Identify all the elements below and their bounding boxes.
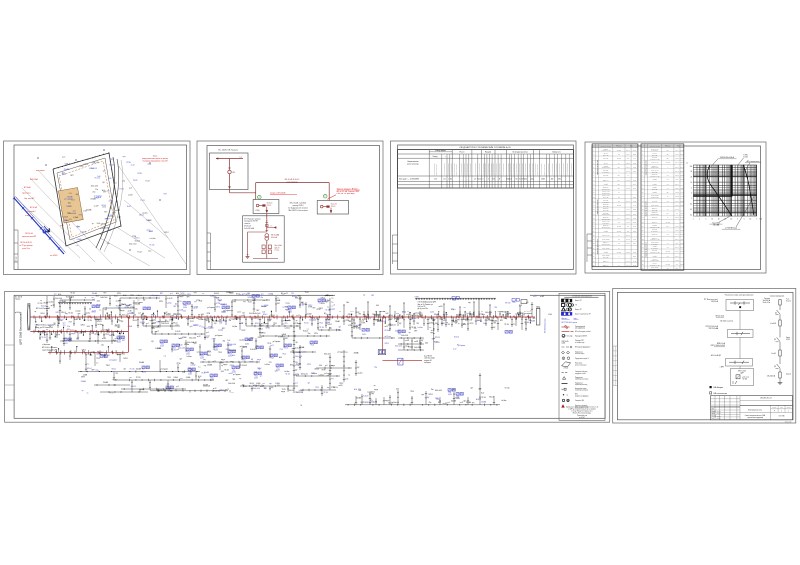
svg-text:0,45: 0,45 [524, 179, 527, 181]
svg-text:62.82: 62.82 [680, 222, 683, 224]
svg-text:33.78: 33.78 [680, 158, 683, 160]
svg-text:ЩУ: ЩУ [155, 331, 157, 333]
svg-text:ВЛ-0,4: ВЛ-0,4 [255, 323, 259, 325]
svg-text:ВРУ: ВРУ [414, 331, 417, 333]
svg-text:уч.5: уч.5 [138, 313, 141, 315]
svg-text:3х50+1х54: 3х50+1х54 [295, 298, 302, 300]
svg-text:ЦРП 10кВ Бессоновский: ЦРП 10кВ Бессоновский [19, 312, 23, 345]
svg-text:на шинах 0,4 кВ: на шинах 0,4 кВ [650, 176, 659, 178]
svg-text:ул.Садовая: ул.Садовая [160, 369, 168, 371]
svg-text:уч-ка 10 м: уч-ка 10 м [22, 248, 30, 250]
svg-text:20.09: 20.09 [680, 217, 683, 219]
svg-text:ПС 110: ПС 110 [130, 369, 135, 371]
svg-text:ПУЭ: ПУЭ [280, 349, 283, 351]
svg-text:расчетная мощность: расчетная мощность [448, 163, 450, 175]
svg-text:расчетная мощность: расчетная мощность [563, 163, 565, 175]
svg-text:ВЛ 10 кВ Ф-13: ВЛ 10 кВ Ф-13 [20, 241, 31, 244]
svg-text:2х250: 2х250 [245, 343, 249, 345]
svg-text:ЩУ: ЩУ [242, 313, 244, 315]
svg-text:КТПН: КТПН [95, 334, 99, 336]
svg-text:Предельная: Предельная [575, 351, 583, 353]
svg-text:По методике расчетных: По методике расчетных [512, 151, 528, 153]
svg-text:5.2: 5.2 [627, 226, 629, 228]
svg-text:ПС 110: ПС 110 [270, 315, 275, 317]
svg-text:ВРУ: ВРУ [78, 313, 81, 315]
svg-text:0,38кВ: 0,38кВ [221, 311, 225, 313]
svg-text:9.4: 9.4 [627, 175, 629, 177]
svg-text:0,38кВ: 0,38кВ [182, 337, 186, 339]
svg-text:СИП-2: СИП-2 [225, 349, 229, 351]
svg-text:ТП-53: ТП-53 [452, 300, 456, 302]
svg-text:ВЛ-0,4: ВЛ-0,4 [44, 303, 48, 305]
svg-text:Длина уч.: Длина уч. [603, 179, 609, 181]
svg-text:ВЛ-0,4: ВЛ-0,4 [173, 323, 177, 325]
svg-text:0,38кВ: 0,38кВ [173, 377, 177, 379]
svg-text:ПУЭ: ПУЭ [202, 327, 205, 329]
svg-text:свардных столба: свардных столба [575, 373, 586, 375]
svg-text:Провода СИП: Провода СИП [575, 340, 584, 342]
svg-text:ТП-13: ТП-13 [116, 305, 120, 307]
svg-text:СИП-2: СИП-2 [108, 315, 112, 317]
svg-text:380: 380 [558, 179, 561, 181]
svg-text:уч.5: уч.5 [51, 305, 54, 307]
svg-text:Расчет: Расчет [460, 151, 465, 153]
svg-text:СИП-2: СИП-2 [81, 325, 85, 327]
svg-text:ТП-27: ТП-27 [276, 368, 280, 370]
svg-text:ТП-8: ТП-8 [448, 392, 451, 394]
svg-text:СИП-2: СИП-2 [91, 312, 95, 314]
svg-text:СИП-2: СИП-2 [139, 215, 144, 217]
svg-text:работ или опор: работ или опор [407, 164, 418, 166]
svg-text:Разряд: Разряд [433, 156, 438, 158]
svg-text:8 Iн: 8 Iн [667, 175, 669, 177]
svg-text:Rл, Ом: Rл, Ом [617, 150, 621, 152]
svg-text:ул.Садовая: ул.Садовая [261, 323, 269, 325]
svg-text:СИП-3: СИП-3 [385, 343, 389, 345]
svg-text:271.5: 271.5 [626, 213, 629, 215]
svg-text:689.9: 689.9 [675, 255, 678, 257]
svg-text:ЩУ: ЩУ [157, 389, 159, 391]
svg-text:Утв: Утв [712, 418, 714, 420]
svg-text:инв.подл: инв.подл [16, 256, 18, 262]
svg-text:2х250: 2х250 [183, 307, 187, 309]
svg-text:оп.4/8: оп.4/8 [439, 306, 443, 308]
svg-text:Rл, Ом: Rл, Ом [666, 162, 670, 164]
svg-text:расчетная мощность: расчетная мощность [525, 163, 527, 175]
svg-text:ПС 110: ПС 110 [70, 293, 75, 295]
svg-text:2х250: 2х250 [430, 311, 434, 313]
svg-text:ул.Садовая: ул.Садовая [179, 295, 187, 297]
svg-text:ПС 110: ПС 110 [504, 324, 509, 326]
svg-text:оп.4/8: оп.4/8 [128, 195, 133, 197]
svg-text:Щит 0,4кВ: Щит 0,4кВ [275, 245, 282, 247]
svg-text:0,2: 0,2 [690, 209, 692, 211]
svg-text:СИП-2: СИП-2 [230, 365, 234, 367]
svg-text:2х16: 2х16 [108, 178, 112, 180]
svg-text:Мощн. тр-ра: Мощн. тр-ра [651, 162, 659, 164]
svg-text:оп.4/8: оп.4/8 [461, 323, 465, 325]
svg-text:80: 80 [516, 179, 518, 181]
svg-text:Длина уч.: Длина уч. [652, 222, 658, 224]
svg-text:L=0,4км: L=0,4км [58, 320, 63, 322]
svg-text:100: 100 [690, 166, 693, 168]
svg-text:ПС 110: ПС 110 [325, 310, 330, 312]
svg-text:уч.5: уч.5 [146, 323, 149, 325]
svg-text:539.2: 539.2 [675, 171, 678, 173]
svg-text:Пров: Пров [712, 413, 715, 415]
svg-text:Уставка: Уставка [652, 225, 657, 227]
svg-text:ПУЭ: ПУЭ [341, 318, 344, 320]
svg-text:10/0,4кВ: 10/0,4кВ [271, 237, 277, 239]
svg-text:318.9: 318.9 [626, 218, 629, 220]
svg-text:Время ср.: Время ср. [603, 217, 609, 219]
svg-text:ТП-13: ТП-13 [267, 343, 271, 345]
svg-text:кад.уч: кад.уч [257, 359, 261, 361]
svg-text:оп.12: оп.12 [237, 312, 241, 314]
svg-text:ПС "Вознесенская": ПС "Вознесенская" [704, 299, 719, 301]
svg-text:оп.4/8: оп.4/8 [100, 228, 104, 230]
svg-text:2х16: 2х16 [386, 313, 389, 315]
svg-text:25м: 25м [431, 389, 434, 391]
svg-text:Rл, Ом: Rл, Ом [617, 158, 621, 160]
svg-text:КТПН: КТПН [322, 370, 326, 372]
svg-text:ЩУ: ЩУ [214, 323, 216, 325]
svg-text:оп.12: оп.12 [453, 349, 457, 351]
svg-text:расчетная мощность: расчетная мощность [444, 163, 446, 175]
svg-text:1,0: 1,0 [474, 179, 476, 181]
svg-text:ВРУ: ВРУ [399, 318, 402, 320]
svg-text:ПС 110: ПС 110 [323, 392, 328, 394]
svg-text:ЩУР: ЩУР [740, 373, 743, 375]
svg-text:параметры расчета сети: параметры расчета сети [597, 239, 599, 254]
svg-text:Обознач.: Обознач. [665, 146, 671, 148]
svg-text:ТП-84: ТП-84 [200, 356, 204, 358]
svg-text:Длина уч.: Длина уч. [652, 165, 658, 167]
svg-text:3х50+1х54: 3х50+1х54 [189, 338, 196, 340]
svg-text:L=0,4км: L=0,4км [137, 295, 142, 297]
svg-text:уч. 1: уч. 1 [60, 225, 64, 227]
svg-text:кад.уч: кад.уч [71, 333, 75, 335]
svg-text:11.28: 11.28 [680, 175, 683, 177]
svg-text:ПУЭ: ПУЭ [494, 307, 497, 309]
svg-text:кад.уч: кад.уч [221, 359, 225, 361]
svg-text:Обознач.: Обознач. [616, 146, 622, 148]
svg-text:КТПН: КТПН [130, 307, 134, 309]
svg-text:Ток сраб.: Ток сраб. [603, 175, 609, 177]
svg-text:669.7: 669.7 [675, 162, 678, 164]
svg-text:ВЛ-0,4: ВЛ-0,4 [377, 321, 381, 323]
svg-text:56.7: 56.7 [676, 268, 679, 270]
svg-text:КТПН: КТПН [307, 364, 311, 366]
svg-text:Длина уч.: Длина уч. [603, 242, 609, 244]
svg-text:ПС 110: ПС 110 [319, 327, 324, 329]
svg-text:Наименов. показат.: Наименов. показат. [649, 146, 660, 148]
svg-text:ВРУ: ВРУ [457, 320, 460, 322]
svg-text:кад.уч: кад.уч [180, 292, 184, 294]
svg-text:10: 10 [712, 218, 714, 220]
svg-text:Ток сраб.: Ток сраб. [652, 229, 658, 231]
svg-text:25м: 25м [469, 320, 472, 322]
svg-text:ТП-94: ТП-94 [183, 305, 187, 307]
svg-text:ПС 110 кВ: ПС 110 кВ [15, 297, 22, 299]
svg-text:ЩУ: ЩУ [339, 327, 341, 329]
svg-text:ВРУ: ВРУ [285, 338, 288, 340]
svg-text:ВЛ-0,4: ВЛ-0,4 [456, 315, 460, 317]
svg-text:ЩУ: ЩУ [89, 309, 91, 311]
svg-text:299.6: 299.6 [626, 201, 629, 203]
svg-text:L=0,4км: L=0,4км [97, 324, 102, 326]
svg-text:20: 20 [718, 218, 720, 220]
svg-text:ВРУ: ВРУ [222, 328, 225, 330]
svg-text:кад.уч: кад.уч [374, 389, 378, 391]
svg-text:КТПН: КТПН [173, 318, 177, 320]
svg-text:расчетная мощность: расчетная мощность [532, 163, 534, 175]
svg-text:расчетная мощность: расчетная мощность [559, 163, 561, 175]
svg-text:ТП-13: ТП-13 [201, 373, 205, 375]
svg-text:0,4: 0,4 [667, 188, 669, 190]
svg-text:оп.4/8: оп.4/8 [46, 308, 50, 310]
svg-text:расчетная мощность: расчетная мощность [522, 163, 524, 175]
svg-text:КТПН: КТПН [361, 323, 365, 325]
svg-text:уч.5: уч.5 [62, 157, 65, 159]
svg-text:728.8: 728.8 [675, 175, 678, 177]
svg-text:ЩУ: ЩУ [151, 341, 153, 343]
svg-text:ВЛ-0,4 кВ в сечении провода.: ВЛ-0,4 кВ в сечении провода. [573, 413, 592, 415]
svg-text:256.0: 256.0 [675, 238, 678, 240]
svg-text:параметры расчета сети: параметры расчета сети [646, 160, 648, 175]
svg-text:Время ср.: Время ср. [603, 208, 609, 210]
svg-text:3х50+1х54: 3х50+1х54 [309, 320, 316, 322]
svg-text:3х50+1х54: 3х50+1х54 [68, 213, 76, 215]
svg-text:2х16: 2х16 [97, 176, 101, 178]
svg-text:637.3: 637.3 [675, 154, 678, 156]
svg-text:38.63: 38.63 [680, 251, 683, 253]
svg-text:t,с: t,с [686, 162, 688, 165]
svg-text:охранная зона ВЛ: охранная зона ВЛ [22, 236, 36, 238]
svg-text:Время ср.: Время ср. [603, 204, 609, 206]
svg-text:на шинах 0,4 кВ: на шинах 0,4 кВ [650, 269, 659, 271]
svg-text:учет эл.эн.: учет эл.эн. [743, 377, 751, 379]
svg-text:ВРУ: ВРУ [326, 302, 329, 304]
svg-text:КТПН: КТПН [220, 362, 224, 364]
svg-text:ТП-13: ТП-13 [315, 387, 319, 389]
svg-text:ул.Садовая: ул.Садовая [103, 330, 111, 332]
svg-text:уч.5: уч.5 [92, 299, 95, 301]
svg-text:СИП-2: СИП-2 [308, 305, 312, 307]
svg-text:сущ.: сущ. [123, 156, 127, 158]
svg-text:Хт=2,5: Хт=2,5 [786, 301, 791, 303]
svg-text:0,4: 0,4 [667, 243, 669, 245]
svg-text:СИП-2: СИП-2 [56, 312, 60, 314]
svg-text:3х50+1х54: 3х50+1х54 [324, 354, 331, 356]
svg-text:уч.5: уч.5 [282, 323, 285, 325]
svg-text:оп.12: оп.12 [225, 389, 229, 391]
svg-text:ЩУ: ЩУ [390, 318, 392, 320]
svg-text:оп.12: оп.12 [213, 388, 217, 390]
svg-text:45.16: 45.16 [633, 171, 636, 173]
svg-text:КТПН: КТПН [212, 339, 216, 341]
svg-text:ВЛ-0,4: ВЛ-0,4 [525, 322, 529, 324]
svg-text:11.54: 11.54 [633, 243, 636, 245]
svg-text:3х50+1х54: 3х50+1х54 [129, 243, 137, 245]
svg-text:27.65: 27.65 [633, 209, 636, 211]
svg-text:ВРУ: ВРУ [257, 310, 260, 312]
svg-text:уч.5: уч.5 [103, 171, 106, 173]
svg-text:НВ отключение: НВ отключение [714, 393, 728, 395]
svg-text:Р: Р [774, 411, 775, 413]
svg-text:уч.5: уч.5 [275, 370, 278, 372]
svg-text:ТП-13: ТП-13 [167, 377, 171, 379]
svg-text:165.7: 165.7 [626, 243, 629, 245]
svg-text:25м: 25м [182, 371, 185, 373]
svg-text:233.2: 233.2 [675, 217, 678, 219]
svg-text:25м: 25м [122, 180, 125, 182]
svg-text:КТПН: КТПН [278, 336, 282, 338]
svg-text:расчетная мощность: расчетная мощность [482, 163, 484, 175]
svg-text:ВЛ-0,4: ВЛ-0,4 [41, 313, 45, 315]
svg-text:расчетная мощность: расчетная мощность [490, 163, 492, 175]
svg-text:ПС 110: ПС 110 [435, 337, 440, 339]
svg-text:ул.Садовая: ул.Садовая [338, 352, 346, 354]
svg-text:L=0,4км: L=0,4км [417, 327, 422, 329]
svg-text:расчетная мощность: расчетная мощность [516, 163, 518, 175]
svg-text:Rл, Ом: Rл, Ом [617, 231, 621, 233]
svg-text:953.0: 953.0 [675, 230, 678, 232]
svg-text:Rл, Ом: Rл, Ом [617, 226, 621, 228]
svg-text:66.94: 66.94 [633, 184, 636, 186]
svg-text:Q1: Q1 [775, 313, 777, 315]
svg-text:ул.Садовая: ул.Садовая [207, 307, 215, 309]
svg-text:ул.Садовая: ул.Садовая [242, 294, 250, 296]
svg-text:ПС 110: ПС 110 [41, 337, 46, 339]
svg-text:ЩУ: ЩУ [63, 302, 65, 304]
svg-text:8 Iн: 8 Iн [667, 255, 669, 257]
svg-text:35.53: 35.53 [633, 154, 636, 156]
svg-text:53.08: 53.08 [633, 226, 636, 228]
svg-text:ЩУ: ЩУ [301, 302, 303, 304]
svg-text:ПУЭ: ПУЭ [285, 323, 288, 325]
svg-text:кад.уч: кад.уч [249, 361, 253, 363]
svg-text:ЗАО НПСК с.Бессоновка: ЗАО НПСК с.Бессоновка [288, 209, 308, 212]
svg-text:СИП-2: СИП-2 [328, 324, 332, 326]
svg-text:ул.Садовая: ул.Садовая [37, 331, 45, 333]
svg-text:ВЛ-0,4: ВЛ-0,4 [165, 321, 169, 323]
svg-text:L=0,4км: L=0,4км [139, 389, 144, 391]
svg-text:3х50+1х54: 3х50+1х54 [228, 383, 235, 385]
svg-text:ПУЭ: ПУЭ [69, 321, 72, 323]
svg-text:ул.Садовая: ул.Садовая [64, 198, 73, 200]
svg-text:ВЛ-10-13: ВЛ-10-13 [244, 226, 251, 228]
svg-text:оп.4/8: оп.4/8 [108, 200, 113, 202]
svg-text:Rл, Ом: Rл, Ом [666, 264, 670, 266]
svg-text:СЕ 301: СЕ 301 [743, 379, 748, 381]
svg-text:Схема замещения: Схема замещения [770, 296, 785, 298]
svg-text:Ток сраб.: Ток сраб. [652, 250, 658, 252]
svg-text:уч.5: уч.5 [176, 386, 179, 388]
svg-text:ВЛ-0,4: ВЛ-0,4 [290, 365, 294, 367]
svg-text:ПС 110: ПС 110 [265, 328, 270, 330]
svg-text:3х50+1х54: 3х50+1х54 [395, 346, 402, 348]
svg-text:от ТП до границы: от ТП до границы [19, 245, 33, 247]
svg-text:ПС 110: ПС 110 [505, 387, 510, 389]
svg-text:КТПН: КТПН [207, 313, 210, 315]
svg-text:2х16: 2х16 [346, 302, 349, 304]
svg-text:Мощн. тр-ра: Мощн. тр-ра [651, 170, 659, 172]
svg-text:58.24: 58.24 [680, 200, 683, 202]
svg-text:уч.5: уч.5 [170, 293, 173, 295]
svg-text:ВЛ-10 кВ Ф-10-13: ВЛ-10 кВ Ф-10-13 [285, 178, 300, 181]
svg-text:ул.Садовая: ул.Садовая [326, 295, 334, 297]
svg-text:Ток сраб.: Ток сраб. [652, 157, 658, 159]
svg-text:L=0,4км: L=0,4км [186, 356, 191, 358]
svg-text:15.76: 15.76 [680, 230, 683, 232]
svg-text:25м: 25м [67, 326, 70, 328]
svg-text:расчетная мощность: расчетная мощность [529, 163, 531, 175]
svg-text:25м: 25м [223, 340, 226, 342]
svg-text:Система: Система [764, 298, 770, 300]
svg-text:Ток к.з.: Ток к.з. [653, 263, 658, 265]
svg-text:L=0,4км: L=0,4км [506, 313, 511, 315]
svg-text:ЩУ: ЩУ [308, 383, 310, 385]
svg-text:расчетная мощность: расчетная мощность [556, 163, 558, 175]
svg-text:ЩУ: ЩУ [443, 318, 445, 320]
svg-text:уч.5: уч.5 [199, 325, 202, 327]
svg-text:с опорой 4: с опорой 4 [27, 210, 35, 213]
svg-text:уч.5: уч.5 [261, 294, 264, 296]
svg-text:2х250: 2х250 [172, 349, 176, 351]
svg-text:Ток к.з.: Ток к.з. [604, 162, 609, 164]
svg-text:L=0,4км: L=0,4км [142, 212, 147, 214]
svg-text:тр-ра 10/0,4: тр-ра 10/0,4 [602, 172, 609, 174]
svg-text:КТПН: КТПН [415, 296, 419, 298]
svg-text:расчетная мощность: расчетная мощность [464, 163, 466, 175]
svg-text:расчетная мощность: расчетная мощность [513, 163, 515, 175]
svg-text:85.9: 85.9 [676, 243, 679, 245]
svg-text:509.0: 509.0 [675, 247, 678, 249]
svg-text:ВЛ-0,4: ВЛ-0,4 [204, 337, 208, 339]
svg-text:ВРУ: ВРУ [174, 306, 177, 308]
svg-text:10 кВ: 10 кВ [548, 314, 552, 316]
svg-text:2х250: 2х250 [362, 334, 366, 336]
svg-text:0,4: 0,4 [618, 162, 620, 164]
svg-text:996.4: 996.4 [675, 150, 678, 152]
svg-text:81.93: 81.93 [680, 179, 683, 181]
svg-text:КТПН: КТПН [208, 326, 212, 328]
svg-text:кад.уч: кад.уч [223, 364, 227, 366]
svg-text:Изм: Изм [712, 408, 715, 410]
svg-text:ВЛ-0,4: ВЛ-0,4 [382, 321, 386, 323]
svg-text:2х16: 2х16 [206, 318, 209, 320]
svg-text:15.7: 15.7 [627, 231, 630, 233]
svg-text:ул.Садовая: ул.Садовая [273, 341, 281, 343]
svg-text:Иванов: Иванов [717, 413, 722, 415]
svg-text:кад.уч: кад.уч [331, 365, 335, 367]
svg-text:ЩУ: ЩУ [121, 321, 123, 323]
svg-text:2х16: 2х16 [219, 322, 222, 324]
svg-text:расчетная мощность: расчетная мощность [552, 163, 554, 175]
svg-text:антенна борна: антенна борна [575, 353, 584, 355]
svg-text:оп.4/8: оп.4/8 [128, 311, 132, 313]
svg-text:53.7: 53.7 [676, 179, 679, 181]
svg-text:0,38кВ: 0,38кВ [282, 334, 286, 336]
svg-text:КТПН: КТПН [363, 402, 367, 404]
svg-text:Уставка: Уставка [604, 148, 609, 150]
svg-text:2х16: 2х16 [483, 323, 486, 325]
svg-text:СИП-2: СИП-2 [207, 355, 211, 357]
svg-text:3х50+1х54: 3х50+1х54 [301, 374, 308, 376]
svg-text:L=0,4км: L=0,4км [285, 328, 290, 330]
svg-text:оп.12: оп.12 [117, 217, 121, 219]
